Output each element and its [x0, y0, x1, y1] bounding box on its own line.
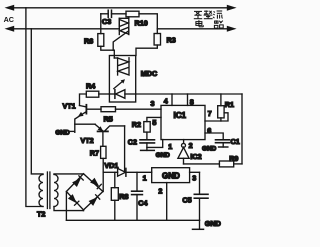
- wire left drop 2 to transformer primary top: [31, 29, 43, 174]
- bridge diode arrow bottom-right: [89, 195, 100, 206]
- label circuit chinese row2: [196, 20, 223, 28]
- ground bar under C2: [141, 149, 155, 151]
- svg-text:VT2: VT2: [81, 136, 94, 145]
- wire R5 to IC1 pin3: [116, 108, 162, 110]
- capacitor C3: [101, 10, 126, 17]
- svg-text:VT1: VT1: [63, 102, 76, 111]
- svg-text:4: 4: [164, 97, 168, 106]
- svg-text:IC2: IC2: [190, 152, 201, 161]
- wire output line 2 right: [157, 28, 227, 30]
- bridge rectifier edges: [66, 174, 103, 210]
- wire VD1 anode from bridge node: [103, 171, 117, 173]
- svg-text:R8: R8: [119, 192, 128, 201]
- ground bar under C1: [219, 146, 228, 148]
- node AC output arrow 1: [227, 5, 237, 11]
- svg-text:GND: GND: [156, 152, 171, 159]
- light arrow inside MDC: [114, 81, 123, 89]
- svg-text:C1: C1: [231, 137, 240, 146]
- wire IC2 to R9: [184, 163, 220, 165]
- svg-text:3: 3: [151, 99, 155, 108]
- wire R4 right to MDC: [99, 93, 110, 95]
- node AC input arrow 2: [5, 26, 15, 32]
- wire secondary bottom to bridge bottom vertex: [54, 207, 84, 211]
- capacitor C2: [140, 132, 155, 150]
- resistor R10: [126, 11, 139, 17]
- wire emitter bus to VT2: [75, 123, 95, 125]
- svg-text:R9: R9: [229, 154, 238, 163]
- pin 2 stub regulator: [166, 183, 168, 221]
- resistor R8: [114, 172, 116, 187]
- svg-text:MDC: MDC: [141, 69, 157, 78]
- svg-text:3: 3: [192, 173, 196, 182]
- svg-text:8: 8: [190, 98, 194, 107]
- svg-text:2: 2: [158, 187, 162, 196]
- wire left drop to transformer primary bottom: [26, 8, 43, 207]
- bridge diode arrow bottom-left: [68, 194, 79, 205]
- svg-text:1: 1: [168, 142, 172, 151]
- pin 4: [171, 94, 173, 105]
- wire R7 to bridge right vertex: [102, 158, 104, 191]
- capacitor C5: [194, 172, 208, 220]
- svg-text:GND: GND: [202, 146, 217, 153]
- triac VS triangles: [119, 20, 128, 27]
- svg-text:R3: R3: [167, 36, 176, 45]
- resistor R1: [220, 94, 222, 106]
- wire R3 bottom to MOC corner: [136, 45, 157, 56]
- svg-text:R5: R5: [104, 114, 113, 123]
- node AC output arrow 2: [227, 26, 237, 32]
- transistor VT1: [75, 105, 101, 133]
- svg-text:C2: C2: [128, 138, 137, 147]
- transformer T2 core: [46, 172, 48, 209]
- ground stub at VT1 emitter: [70, 130, 75, 132]
- svg-text:5: 5: [152, 118, 156, 127]
- svg-text:R1: R1: [225, 100, 234, 109]
- triac VS top bars: [128, 17, 130, 35]
- wire R10 to R3: [139, 14, 157, 34]
- pin 1 wire: [147, 140, 163, 148]
- wire bottom bus: [66, 219, 199, 221]
- diode VD1: [118, 168, 152, 176]
- svg-text:C4: C4: [138, 199, 147, 208]
- pin 3 wire regulator: [190, 171, 200, 173]
- capacitor C4: [132, 172, 143, 220]
- transformer T2 secondary winding: [54, 175, 58, 207]
- svg-text:IC1: IC1: [174, 111, 187, 120]
- svg-text:R6: R6: [84, 37, 93, 46]
- wire R4 left to VT1 collector: [80, 94, 87, 106]
- wire secondary top to bridge top vertex: [54, 173, 84, 175]
- wire main bus to right: [136, 93, 242, 95]
- bridge diode arrow top-right: [90, 178, 101, 189]
- LED inside MDC: [109, 90, 135, 99]
- wire MOC top pin: [113, 50, 115, 58]
- voltage reference IC2: [178, 143, 189, 164]
- resistor R7: [101, 146, 106, 158]
- svg-text:GND: GND: [162, 171, 180, 180]
- diac inside MDC: [114, 58, 129, 75]
- resistor R5: [101, 107, 116, 112]
- pin 7 wire: [205, 113, 228, 121]
- svg-text:R2: R2: [132, 120, 141, 129]
- pin 8: [187, 94, 189, 105]
- transformer T2 primary winding: [39, 175, 43, 207]
- wire snubber left vertical: [100, 14, 102, 34]
- capacitor C1: [216, 140, 230, 147]
- label to-rectifier chinese row1: [194, 10, 223, 18]
- wire R9 to right vertical: [234, 163, 242, 165]
- wire VT2 collector drop to VD1 node: [124, 126, 126, 172]
- svg-text:VD1: VD1: [104, 161, 118, 170]
- wire AC line 1 top: [14, 7, 227, 9]
- svg-text:C3: C3: [102, 17, 111, 26]
- wire bridge bottom vertex stub: [83, 209, 85, 212]
- svg-text:R4: R4: [86, 82, 95, 91]
- wire R6 bottom to gate node: [101, 46, 115, 50]
- svg-text:GND: GND: [205, 219, 221, 228]
- wire bridge left vertex to bus: [65, 192, 67, 221]
- wire far right vertical: [241, 94, 243, 164]
- wire AC line 2 left: [14, 28, 120, 30]
- resistor R2: [144, 122, 150, 133]
- svg-text:6: 6: [207, 126, 211, 135]
- svg-text:R7: R7: [90, 149, 99, 158]
- resistor R9: [219, 161, 233, 167]
- op-amp IC1 box: [161, 105, 205, 139]
- svg-text:T2: T2: [37, 209, 45, 218]
- regulator GND box: [152, 168, 190, 183]
- resistor R6: [98, 34, 104, 47]
- transistor VT2: [95, 124, 124, 146]
- svg-text:7: 7: [208, 109, 212, 118]
- pin 2 stub: [183, 140, 185, 144]
- svg-text:GND: GND: [55, 129, 70, 136]
- svg-text:C5: C5: [182, 195, 191, 204]
- pin 6 wire: [205, 133, 223, 140]
- optocoupler MDC box: [109, 56, 135, 103]
- bridge diode arrow top-left: [72, 176, 83, 187]
- pin 5 wire: [147, 117, 161, 121]
- resistor R4: [86, 91, 99, 97]
- triac gate wire: [113, 32, 127, 51]
- node AC input arrow 1: [5, 5, 15, 11]
- ground bottom right: [199, 220, 201, 229]
- resistor R3: [154, 34, 160, 46]
- svg-text:AC: AC: [4, 15, 14, 24]
- svg-text:1: 1: [143, 173, 147, 182]
- svg-text:R10: R10: [135, 19, 148, 28]
- svg-text:2: 2: [189, 141, 193, 150]
